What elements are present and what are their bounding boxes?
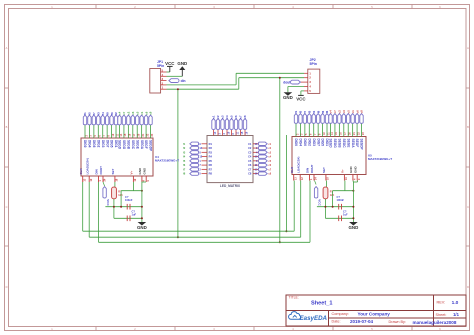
svg-text:DIN: DIN xyxy=(95,169,99,174)
svg-text:SEGD: SEGD xyxy=(329,139,333,149)
svg-text:Your Company: Your Company xyxy=(358,311,391,316)
svg-text:5: 5 xyxy=(199,173,201,176)
svg-text:C6: C6 xyxy=(248,163,252,167)
svg-text:f6: f6 xyxy=(321,110,325,113)
svg-text:24: 24 xyxy=(104,178,107,181)
svg-text:20: 20 xyxy=(138,133,141,136)
svg-text:Drawn By:: Drawn By: xyxy=(389,320,407,324)
svg-text:DIG0: DIG0 xyxy=(294,139,298,147)
svg-text:DIG5: DIG5 xyxy=(321,139,325,147)
svg-text:C5: C5 xyxy=(248,159,252,163)
svg-text:12: 12 xyxy=(199,156,202,159)
svg-text:B: B xyxy=(6,125,8,129)
svg-text:12K: 12K xyxy=(118,194,123,197)
svg-text:SEGDP: SEGDP xyxy=(149,140,153,152)
svg-text:C8: C8 xyxy=(248,172,252,176)
svg-text:5Pin: 5Pin xyxy=(157,64,164,68)
svg-text:C: C xyxy=(6,205,8,209)
svg-text:c3: c3 xyxy=(268,151,271,154)
svg-text:c8: c8 xyxy=(360,110,364,114)
svg-text:21: 21 xyxy=(353,132,356,135)
svg-text:SEGB: SEGB xyxy=(126,140,130,150)
svg-text:c6: c6 xyxy=(355,110,359,114)
svg-text:11: 11 xyxy=(236,131,239,134)
svg-text:f8: f8 xyxy=(183,173,186,176)
svg-text:4: 4 xyxy=(143,180,146,182)
svg-text:10: 10 xyxy=(112,133,115,136)
svg-text:B: B xyxy=(467,125,469,129)
svg-text:SEGE: SEGE xyxy=(346,139,350,148)
svg-text:f7: f7 xyxy=(92,112,96,115)
svg-text:c2: c2 xyxy=(268,147,271,150)
svg-text:19: 19 xyxy=(345,177,348,180)
svg-text:DIG5: DIG5 xyxy=(110,140,114,148)
svg-text:V+: V+ xyxy=(130,170,134,174)
svg-text:SEGE: SEGE xyxy=(135,140,139,149)
svg-text:VCC: VCC xyxy=(317,199,321,206)
svg-text:4: 4 xyxy=(256,151,258,154)
svg-text:c4: c4 xyxy=(225,115,229,118)
svg-text:f4: f4 xyxy=(101,112,105,115)
svg-text:GND: GND xyxy=(177,61,187,66)
svg-text:100nF: 100nF xyxy=(337,198,345,202)
svg-text:14: 14 xyxy=(331,132,334,135)
svg-text:3: 3 xyxy=(301,133,304,135)
svg-text:4: 4 xyxy=(223,133,226,135)
svg-text:2: 2 xyxy=(199,168,201,171)
svg-text:15: 15 xyxy=(124,133,127,136)
svg-text:SEGG: SEGG xyxy=(122,140,126,150)
svg-text:MAX7219EWG+T: MAX7219EWG+T xyxy=(155,159,179,163)
svg-text:CLK: CLK xyxy=(79,168,83,175)
svg-text:16: 16 xyxy=(340,132,343,135)
svg-text:f2: f2 xyxy=(183,147,186,150)
svg-text:f3: f3 xyxy=(183,151,186,154)
svg-text:15: 15 xyxy=(335,132,338,135)
svg-text:f4: f4 xyxy=(312,110,316,113)
svg-text:DIG0: DIG0 xyxy=(83,140,87,148)
svg-text:GND: GND xyxy=(283,95,293,100)
svg-text:5Pin: 5Pin xyxy=(310,62,317,66)
svg-text:5: 5 xyxy=(305,133,308,135)
svg-text:DIG4: DIG4 xyxy=(88,140,92,148)
svg-text:R1: R1 xyxy=(209,142,213,146)
svg-text:f1: f1 xyxy=(294,110,298,113)
svg-text:1uF: 1uF xyxy=(343,213,348,217)
svg-text:8: 8 xyxy=(199,151,201,154)
svg-text:c1: c1 xyxy=(268,143,271,146)
svg-text:f7: f7 xyxy=(303,110,307,113)
svg-text:V+: V+ xyxy=(341,169,345,173)
svg-text:R7: R7 xyxy=(209,167,213,171)
svg-text:c8: c8 xyxy=(243,115,247,118)
svg-text:DIG3: DIG3 xyxy=(101,140,105,148)
svg-text:9: 9 xyxy=(147,180,150,182)
svg-text:VCC: VCC xyxy=(106,199,110,206)
svg-text:12: 12 xyxy=(90,178,93,181)
svg-text:SET: SET xyxy=(111,168,115,174)
svg-text:15: 15 xyxy=(241,131,244,134)
svg-text:SET: SET xyxy=(322,167,326,173)
svg-text:12K: 12K xyxy=(330,194,335,197)
svg-text:f5: f5 xyxy=(299,110,303,113)
svg-text:SEGD: SEGD xyxy=(118,140,122,150)
svg-text:EasyEDA: EasyEDA xyxy=(300,315,328,322)
svg-text:SEGDP: SEGDP xyxy=(360,139,364,151)
svg-text:f1: f1 xyxy=(83,112,87,115)
svg-text:c1: c1 xyxy=(212,115,216,118)
svg-text:Sheet:: Sheet: xyxy=(436,313,447,317)
svg-text:c1: c1 xyxy=(140,111,144,115)
svg-text:SEGC: SEGC xyxy=(342,139,346,149)
svg-text:c5: c5 xyxy=(135,111,139,115)
svg-text:c7: c7 xyxy=(239,115,243,118)
svg-text:13: 13 xyxy=(214,131,217,134)
svg-text:c3: c3 xyxy=(131,111,135,115)
svg-text:6: 6 xyxy=(99,135,102,137)
svg-text:7: 7 xyxy=(103,135,106,137)
svg-text:14: 14 xyxy=(199,147,202,150)
svg-text:SEGF: SEGF xyxy=(355,139,359,148)
svg-text:13: 13 xyxy=(83,178,86,181)
svg-text:19: 19 xyxy=(134,178,137,181)
svg-text:DIG4: DIG4 xyxy=(299,139,303,147)
svg-text:6: 6 xyxy=(310,133,313,135)
svg-text:16: 16 xyxy=(255,173,258,176)
svg-text:f8: f8 xyxy=(105,112,109,115)
svg-text:din: din xyxy=(181,79,186,83)
svg-text:8: 8 xyxy=(318,133,321,135)
svg-text:f6: f6 xyxy=(110,112,114,115)
svg-text:f3: f3 xyxy=(96,112,100,115)
svg-text:DIG1: DIG1 xyxy=(114,140,118,148)
svg-text:1: 1 xyxy=(99,180,102,182)
svg-text:7: 7 xyxy=(199,164,201,167)
svg-text:LOAD(CS#): LOAD(CS#) xyxy=(85,158,89,174)
svg-text:f7: f7 xyxy=(183,168,186,171)
svg-text:23: 23 xyxy=(362,132,365,135)
svg-text:TITLE:: TITLE: xyxy=(289,296,299,300)
svg-text:C1: C1 xyxy=(248,142,252,146)
svg-text:6: 6 xyxy=(256,160,258,163)
svg-text:10: 10 xyxy=(255,156,258,159)
svg-text:17: 17 xyxy=(133,133,136,136)
svg-text:c6: c6 xyxy=(268,164,271,167)
svg-text:f1: f1 xyxy=(183,143,186,146)
svg-text:DOUT: DOUT xyxy=(99,166,103,175)
svg-text:VCC: VCC xyxy=(165,61,175,66)
svg-text:16: 16 xyxy=(129,133,132,136)
svg-text:14: 14 xyxy=(120,133,123,136)
svg-text:c6: c6 xyxy=(234,115,238,118)
svg-text:1uF: 1uF xyxy=(132,213,137,217)
svg-text:1: 1 xyxy=(199,160,201,163)
svg-text:C: C xyxy=(467,205,469,209)
svg-text:GND: GND xyxy=(137,225,147,230)
svg-text:manuelaguilera2008: manuelaguilera2008 xyxy=(413,320,457,325)
svg-text:SEGF: SEGF xyxy=(144,140,148,149)
svg-text:100nF: 100nF xyxy=(125,198,133,202)
svg-text:DIG7: DIG7 xyxy=(105,140,109,148)
svg-text:R6: R6 xyxy=(209,163,213,167)
svg-text:DIG2: DIG2 xyxy=(307,139,311,147)
svg-text:23: 23 xyxy=(151,133,154,136)
svg-text:LOAD(CS#): LOAD(CS#) xyxy=(296,157,300,173)
svg-text:c3: c3 xyxy=(342,110,346,114)
svg-text:13: 13 xyxy=(255,143,258,146)
svg-text:VCC: VCC xyxy=(296,96,306,101)
svg-text:R8: R8 xyxy=(209,172,213,176)
svg-text:12: 12 xyxy=(301,177,304,180)
svg-text:REV:: REV: xyxy=(437,301,446,305)
svg-text:f8: f8 xyxy=(316,110,320,113)
svg-text:1: 1 xyxy=(310,178,313,180)
svg-text:9: 9 xyxy=(199,143,201,146)
svg-text:DIG6: DIG6 xyxy=(303,139,307,147)
svg-text:c7: c7 xyxy=(122,111,126,115)
svg-text:3: 3 xyxy=(256,147,258,150)
svg-text:MAX7219EWG+T: MAX7219EWG+T xyxy=(368,157,392,161)
svg-text:c7: c7 xyxy=(333,110,337,114)
svg-text:c7: c7 xyxy=(268,168,271,171)
svg-text:C4: C4 xyxy=(248,155,252,159)
svg-text:11: 11 xyxy=(255,164,258,167)
svg-text:21: 21 xyxy=(142,133,145,136)
svg-text:c4: c4 xyxy=(118,111,122,115)
svg-text:LED_MATRIX: LED_MATRIX xyxy=(220,184,241,188)
svg-text:dout: dout xyxy=(283,80,291,84)
svg-text:DIG6: DIG6 xyxy=(92,140,96,148)
svg-text:16: 16 xyxy=(245,131,248,134)
svg-text:2: 2 xyxy=(85,135,88,137)
svg-text:1/1: 1/1 xyxy=(453,312,459,317)
svg-text:10: 10 xyxy=(323,132,326,135)
svg-text:1.0: 1.0 xyxy=(452,300,459,306)
svg-text:SEGC: SEGC xyxy=(131,140,135,150)
svg-text:c4: c4 xyxy=(329,110,333,114)
svg-text:c1: c1 xyxy=(351,110,355,114)
svg-text:SEGG: SEGG xyxy=(333,139,337,149)
svg-text:22: 22 xyxy=(357,132,360,135)
svg-text:c8: c8 xyxy=(268,173,271,176)
svg-text:c5: c5 xyxy=(268,160,271,163)
svg-text:CLK: CLK xyxy=(290,166,294,173)
svg-text:DIG1: DIG1 xyxy=(325,139,329,147)
svg-text:C7: C7 xyxy=(248,167,252,171)
svg-text:C2: C2 xyxy=(248,146,252,150)
svg-text:SEGB: SEGB xyxy=(337,139,341,149)
svg-text:c5: c5 xyxy=(230,115,234,118)
svg-text:c2: c2 xyxy=(338,110,342,114)
svg-text:3: 3 xyxy=(90,135,93,137)
svg-text:7: 7 xyxy=(314,133,317,135)
svg-text:c2: c2 xyxy=(216,115,220,118)
svg-text:DIG3: DIG3 xyxy=(312,139,316,147)
svg-text:c2: c2 xyxy=(127,111,131,115)
svg-text:4: 4 xyxy=(354,178,357,180)
svg-text:17: 17 xyxy=(344,132,347,135)
svg-text:6: 6 xyxy=(232,133,235,135)
svg-text:13: 13 xyxy=(294,177,297,180)
svg-text:D: D xyxy=(467,285,469,289)
svg-text:20: 20 xyxy=(349,132,352,135)
svg-text:8: 8 xyxy=(107,135,110,137)
svg-text:9: 9 xyxy=(358,178,361,180)
svg-text:GND: GND xyxy=(353,166,357,174)
svg-text:R4: R4 xyxy=(209,155,213,159)
svg-text:15: 15 xyxy=(255,168,258,171)
svg-text:Company:: Company: xyxy=(332,312,349,316)
svg-text:24: 24 xyxy=(315,177,318,180)
svg-text:5: 5 xyxy=(94,135,97,137)
svg-text:f5: f5 xyxy=(183,160,186,163)
svg-text:Date:: Date: xyxy=(332,320,341,324)
svg-text:GND: GND xyxy=(349,225,359,230)
svg-text:D: D xyxy=(6,285,8,289)
svg-text:R5: R5 xyxy=(209,159,213,163)
svg-text:f3: f3 xyxy=(307,110,311,113)
svg-text:c6: c6 xyxy=(144,111,148,115)
svg-text:R3: R3 xyxy=(209,150,213,154)
svg-text:DIG7: DIG7 xyxy=(316,139,320,147)
svg-text:2: 2 xyxy=(296,133,299,135)
svg-text:18: 18 xyxy=(327,177,330,180)
svg-text:DOUT: DOUT xyxy=(310,164,314,173)
svg-text:c5: c5 xyxy=(346,110,350,114)
svg-text:A: A xyxy=(6,46,8,50)
svg-text:18: 18 xyxy=(116,178,119,181)
svg-text:c4: c4 xyxy=(268,156,271,159)
svg-text:22: 22 xyxy=(146,133,149,136)
svg-text:C3: C3 xyxy=(248,150,252,154)
svg-text:SEGA: SEGA xyxy=(140,140,144,150)
svg-text:c8: c8 xyxy=(149,111,153,115)
svg-text:f4: f4 xyxy=(183,156,186,159)
svg-text:10: 10 xyxy=(227,131,230,134)
svg-text:GND: GND xyxy=(142,167,146,175)
svg-text:DIG2: DIG2 xyxy=(96,140,100,148)
svg-text:f6: f6 xyxy=(183,164,186,167)
svg-text:A: A xyxy=(467,46,469,50)
svg-text:DIN: DIN xyxy=(306,168,310,173)
svg-text:3: 3 xyxy=(218,133,221,135)
svg-text:Sheet_1: Sheet_1 xyxy=(311,301,332,307)
svg-text:R2: R2 xyxy=(209,146,213,150)
svg-text:c3: c3 xyxy=(221,115,225,118)
svg-text:f5: f5 xyxy=(88,112,92,115)
svg-text:SEGA: SEGA xyxy=(351,139,355,149)
svg-text:2019-07-04: 2019-07-04 xyxy=(350,319,374,324)
